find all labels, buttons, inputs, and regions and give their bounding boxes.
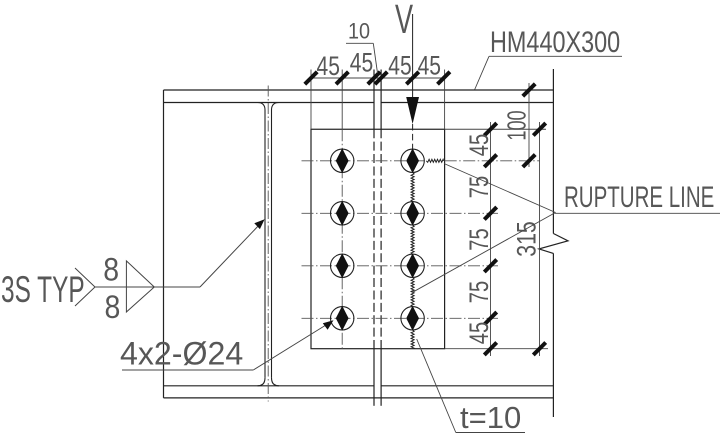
4x2-Ø24 leader arrowhead: [323, 320, 334, 329]
beam bottom flange edge: [164, 397, 554, 399]
4x2-Ø24 leader: [253, 321, 332, 370]
bolt column 1 centerline: [341, 129, 343, 348]
HM440X300 underline: [489, 55, 622, 57]
RUPTURE LINE callout: [413, 164, 720, 293]
tick 45dim plate bottom: [484, 343, 496, 355]
bolt B2 row2 col1 circle: [331, 202, 354, 225]
bolt B6 row2 col2 circle: [401, 202, 424, 225]
SECTION CUT: [395, 0, 419, 149]
WELD SYMBOL: [1, 219, 265, 325]
bolt B5 diamond: [406, 148, 419, 173]
splice plate outline: [311, 129, 445, 348]
bolt B1 row1 col1 circle: [331, 149, 354, 172]
weld tail chevron: [75, 268, 95, 306]
bolt B1 diamond: [336, 148, 349, 173]
tick 45dim plate top: [484, 123, 496, 135]
bolt row 4 centerline: [302, 317, 499, 319]
top dimension line: [309, 77, 446, 79]
svg-text:4x2-Ø24: 4x2-Ø24: [120, 335, 243, 371]
beam left end edge: [163, 90, 165, 398]
extension line at plate right edge: [444, 70, 446, 130]
BOLTS: [331, 148, 425, 330]
section cut line: [412, 14, 414, 97]
weld reference line: [95, 286, 200, 288]
4x2-D24 callout: [120, 320, 334, 371]
t=10 underline: [456, 432, 525, 434]
stiffener bottom left fillet: [258, 378, 266, 386]
tick at x=412.6: [406, 72, 418, 84]
svg-text:45: 45: [464, 134, 493, 156]
HM440X300 leader: [475, 56, 489, 89]
stiffener left edge: [264, 110, 266, 378]
stiffener bottom right fillet: [272, 378, 280, 386]
section cut arrow: [406, 97, 419, 124]
svg-text:75: 75: [464, 281, 493, 303]
bolt row 3 centerline: [302, 265, 499, 267]
beam right break line upper: [552, 69, 554, 234]
plate top extension line: [445, 128, 546, 130]
svg-text:3S TYP: 3S TYP: [1, 269, 85, 310]
beam right break line lower: [552, 253, 554, 417]
beam top flange inner edge (left beam): [164, 102, 375, 104]
bolt B4 diamond: [336, 306, 349, 331]
weld fillet triangle: [126, 261, 154, 312]
svg-text:HM440X300: HM440X300: [490, 25, 620, 58]
315 dimension line: [539, 122, 541, 356]
label 10 underline: [346, 42, 373, 44]
svg-text:45: 45: [388, 51, 411, 81]
svg-text:t=10: t=10: [460, 400, 521, 435]
bolt B4 row4 col1 circle: [331, 307, 354, 330]
section cut dashed continuation: [412, 124, 414, 149]
label 10 leader: [373, 43, 377, 73]
stiffener centerline: [267, 86, 269, 402]
bolt B7 diamond: [406, 253, 419, 278]
weld leader arrowhead: [254, 219, 264, 229]
weld leader: [200, 221, 263, 287]
svg-text:V: V: [395, 0, 413, 42]
svg-text:45: 45: [350, 48, 373, 78]
right beam end edge hidden behind plate (dashed): [380, 129, 382, 348]
bolt row 1 centerline left part: [302, 160, 426, 162]
bolt row 2 centerline: [302, 212, 499, 214]
tick 315dim plate bottom: [533, 343, 545, 355]
tick 45dim row3: [484, 260, 496, 272]
bolt B6 diamond: [406, 201, 419, 226]
tick 45dim row1: [484, 155, 496, 167]
HM440X300 callout: [475, 25, 622, 89]
RIGHT DIMENSIONS: [445, 83, 548, 356]
rupture line zigzag bolt2-bolt3: [411, 225, 414, 254]
bolt B3 row3 col1 circle: [331, 254, 354, 277]
stiffener right edge: [271, 110, 273, 378]
svg-text:45: 45: [464, 322, 493, 344]
svg-text:8: 8: [103, 253, 119, 288]
tick at x=381.1: [375, 72, 387, 84]
bolt B8 diamond: [406, 306, 419, 331]
bolt B2 diamond: [336, 201, 349, 226]
svg-text:100: 100: [502, 110, 531, 140]
beam bottom flange inner edge (left beam): [164, 385, 375, 387]
beam top flange inner edge (right beam): [381, 102, 553, 104]
svg-text:8: 8: [104, 291, 120, 326]
tick 315dim plate top: [533, 123, 545, 135]
svg-text:315: 315: [512, 221, 542, 257]
svg-text:10: 10: [348, 20, 370, 44]
tick at x=311: [305, 72, 317, 84]
bolt B3 diamond: [336, 253, 349, 278]
beam right break zigzag: [539, 234, 568, 254]
left beam end edge at splice gap (solid above plate): [373, 70, 375, 130]
bolt B5 row1 col2 circle: [401, 149, 424, 172]
tick 45dim row2: [484, 207, 496, 219]
rupture line zigzag bolt3-bolt4: [411, 278, 414, 307]
bolt B7 row3 col2 circle: [401, 254, 424, 277]
stiffener top right fillet: [272, 103, 280, 111]
left beam end edge (solid below plate): [373, 349, 375, 406]
4x2-Ø24 underline: [122, 369, 253, 371]
beam bottom flange inner edge (right beam): [381, 385, 553, 387]
RUPTURE LINE lower leader: [413, 213, 556, 293]
rupture line horizontal zigzag: [426, 159, 443, 162]
tick at x=443.7: [438, 72, 450, 84]
right beam end edge (solid below plate): [380, 349, 382, 406]
RUPTURE LINE underline: [555, 212, 720, 214]
tick 100dim beam top: [523, 84, 535, 96]
t=10 leader: [417, 339, 456, 433]
RUPTURE LINE upper leader: [444, 164, 556, 213]
tick 45dim row4: [484, 312, 496, 324]
beam top flange edge: [164, 89, 554, 91]
extension line at plate left edge: [310, 70, 312, 130]
rupture line zigzag bolt4-plate bottom: [411, 330, 414, 349]
t=10 callout: [417, 339, 525, 435]
svg-text:45: 45: [418, 51, 441, 81]
svg-text:45: 45: [316, 52, 339, 82]
TOP DIMENSION: [305, 20, 450, 130]
bolt row 1 centerline right extension: [445, 160, 540, 162]
rupture line zigzag bolt1-bolt2: [411, 173, 414, 202]
tick at x=374: [368, 72, 380, 84]
svg-text:RUPTURE LINE: RUPTURE LINE: [564, 182, 714, 214]
bolt spacing dimension line: [490, 122, 492, 356]
stiffener top left fillet: [258, 103, 266, 111]
bolt B8 row4 col2 circle: [401, 307, 424, 330]
extension line at bolt column 1: [341, 70, 343, 130]
RUPTURE ZIGZAG: [411, 159, 444, 348]
tick at x=342.2: [336, 72, 348, 84]
tick 100dim row1: [523, 155, 535, 167]
right beam end edge at splice gap (solid above plate): [380, 70, 382, 130]
left beam end edge hidden behind plate (dashed): [373, 129, 375, 348]
svg-text:75: 75: [464, 228, 493, 250]
plate bottom extension line: [445, 348, 548, 350]
100 dimension line: [528, 83, 530, 167]
